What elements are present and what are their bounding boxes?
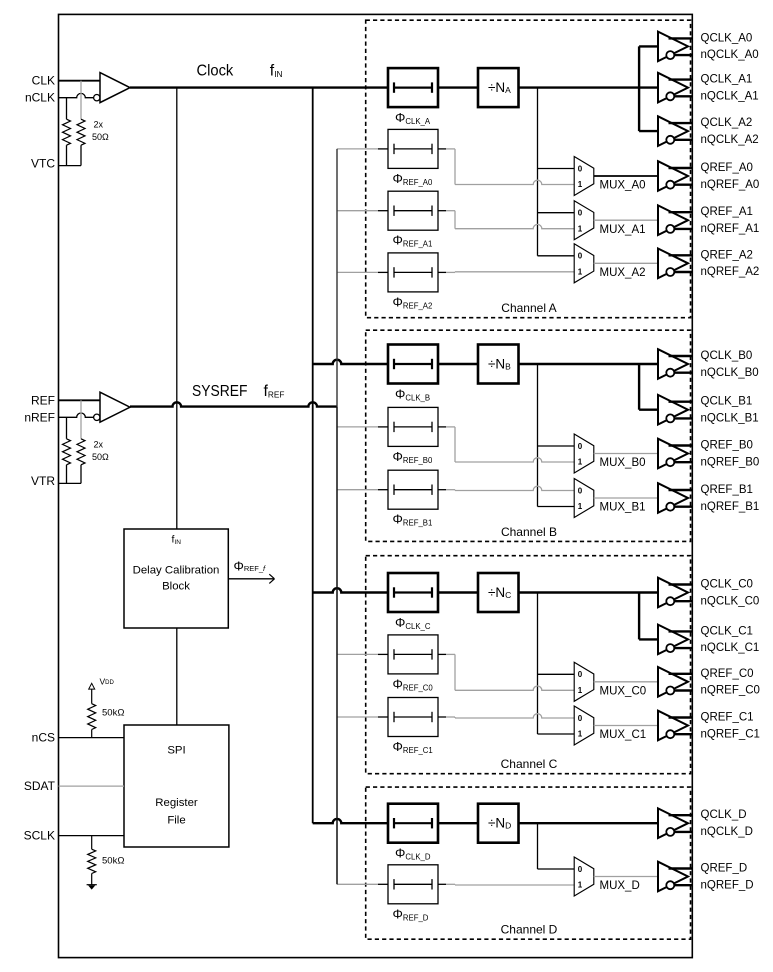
svg-text:QCLK_B0: QCLK_B0	[701, 350, 753, 362]
svg-text:QREF_C1: QREF_C1	[701, 712, 754, 724]
svg-text:1: 1	[578, 267, 583, 276]
svg-text:QREF_A1: QREF_A1	[701, 206, 753, 218]
svg-text:MUX_B0: MUX_B0	[600, 457, 646, 469]
svg-text:CLK: CLK	[32, 74, 55, 88]
svg-text:0: 0	[578, 252, 583, 261]
svg-text:nQCLK_B1: nQCLK_B1	[701, 413, 759, 425]
svg-text:2x: 2x	[94, 439, 104, 449]
svg-text:nCLK: nCLK	[25, 91, 55, 105]
svg-text:nQREF_A1: nQREF_A1	[701, 223, 760, 235]
svg-text:50Ω: 50Ω	[92, 132, 109, 142]
svg-text:nQREF_B1: nQREF_B1	[701, 501, 760, 513]
svg-text:MUX_A0: MUX_A0	[600, 180, 646, 192]
svg-text:Register: Register	[155, 797, 198, 809]
svg-text:REF: REF	[31, 393, 55, 407]
svg-text:QCLK_A2: QCLK_A2	[701, 117, 753, 129]
svg-text:Channel C: Channel C	[501, 757, 558, 771]
svg-text:nQREF_B0: nQREF_B0	[701, 456, 760, 468]
svg-text:QREF_B1: QREF_B1	[701, 484, 753, 496]
svg-text:nQCLK_A1: nQCLK_A1	[701, 90, 759, 102]
svg-text:nQCLK_B0: nQCLK_B0	[701, 367, 759, 379]
svg-text:QCLK_D: QCLK_D	[701, 809, 747, 821]
svg-text:0: 0	[578, 670, 583, 679]
svg-text:1: 1	[578, 180, 583, 189]
svg-text:nQCLK_A0: nQCLK_A0	[701, 49, 759, 61]
svg-text:nCS: nCS	[32, 731, 55, 745]
svg-text:QREF_A2: QREF_A2	[701, 249, 753, 261]
svg-text:50Ω: 50Ω	[92, 452, 109, 462]
svg-text:2x: 2x	[94, 120, 104, 130]
svg-text:SPI: SPI	[167, 745, 185, 757]
svg-text:VTR: VTR	[31, 474, 55, 488]
svg-text:MUX_D: MUX_D	[600, 880, 640, 892]
svg-text:Channel D: Channel D	[501, 923, 558, 937]
svg-text:MUX_B1: MUX_B1	[600, 502, 646, 514]
svg-text:SYSREF: SYSREF	[192, 383, 248, 400]
svg-text:VTC: VTC	[31, 156, 55, 170]
svg-text:File: File	[167, 815, 185, 827]
svg-text:nQREF_C1: nQREF_C1	[701, 728, 760, 740]
svg-text:QREF_C0: QREF_C0	[701, 668, 754, 680]
svg-text:QREF_D: QREF_D	[701, 863, 748, 875]
svg-text:0: 0	[578, 714, 583, 723]
svg-text:Channel A: Channel A	[501, 301, 556, 315]
svg-text:1: 1	[578, 730, 583, 739]
svg-text:MUX_C1: MUX_C1	[600, 729, 647, 741]
svg-text:nQREF_A2: nQREF_A2	[701, 266, 760, 278]
svg-text:0: 0	[578, 209, 583, 218]
svg-text:MUX_C0: MUX_C0	[600, 686, 647, 698]
svg-text:0: 0	[578, 164, 583, 173]
svg-text:50kΩ: 50kΩ	[102, 856, 124, 867]
svg-text:MUX_A2: MUX_A2	[600, 267, 646, 279]
svg-text:nQCLK_D: nQCLK_D	[701, 826, 753, 838]
svg-text:Clock: Clock	[197, 62, 235, 79]
svg-text:QCLK_C1: QCLK_C1	[701, 625, 753, 637]
svg-text:1: 1	[578, 686, 583, 695]
svg-text:QCLK_C0: QCLK_C0	[701, 579, 753, 591]
svg-text:1: 1	[578, 502, 583, 511]
svg-text:Channel B: Channel B	[501, 525, 557, 539]
svg-text:QCLK_A1: QCLK_A1	[701, 74, 753, 86]
svg-text:nQCLK_A2: nQCLK_A2	[701, 134, 759, 146]
svg-text:50kΩ: 50kΩ	[102, 708, 124, 719]
svg-text:nQREF_D: nQREF_D	[701, 879, 754, 891]
svg-text:nQCLK_C0: nQCLK_C0	[701, 595, 760, 607]
svg-text:Delay Calibration: Delay Calibration	[133, 565, 220, 577]
svg-text:Block: Block	[162, 581, 190, 593]
svg-text:MUX_A1: MUX_A1	[600, 224, 646, 236]
svg-text:1: 1	[578, 224, 583, 233]
svg-text:nQREF_A0: nQREF_A0	[701, 179, 760, 191]
svg-text:SCLK: SCLK	[24, 829, 55, 843]
svg-text:QREF_B0: QREF_B0	[701, 440, 753, 452]
svg-text:SDAT: SDAT	[24, 779, 56, 793]
svg-text:1: 1	[578, 881, 583, 890]
svg-text:nQREF_C0: nQREF_C0	[701, 685, 760, 697]
svg-text:nREF: nREF	[24, 410, 55, 424]
svg-text:QREF_A0: QREF_A0	[701, 162, 753, 174]
svg-text:nQCLK_C1: nQCLK_C1	[701, 642, 760, 654]
svg-text:QCLK_A0: QCLK_A0	[701, 32, 753, 44]
svg-text:QCLK_B1: QCLK_B1	[701, 396, 753, 408]
svg-text:0: 0	[578, 865, 583, 874]
svg-text:0: 0	[578, 486, 583, 495]
svg-text:0: 0	[578, 442, 583, 451]
svg-text:1: 1	[578, 458, 583, 467]
